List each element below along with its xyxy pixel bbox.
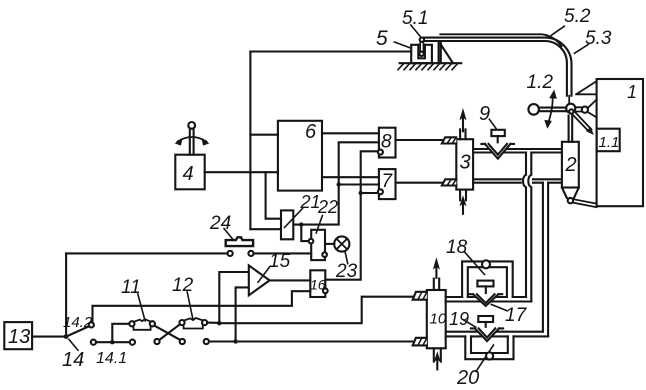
cylinder 2 piston rod to pivot — [569, 116, 573, 142]
open contact under 12 — [180, 339, 185, 344]
svg-text:9: 9 — [479, 103, 490, 125]
valve 10 upper port trapezoid — [413, 292, 427, 300]
wire branch down into relay 21 upper-left — [266, 172, 281, 219]
valve 10 bottom stubs and arrow — [434, 348, 441, 369]
junction dot on lower wire — [233, 339, 237, 343]
valve 3 — [456, 139, 473, 189]
label 10 — [430, 311, 447, 328]
wire 24 right to relay 22 — [254, 252, 312, 254]
pointer 24 — [224, 229, 234, 241]
box 4 — [175, 155, 204, 190]
switch 12 bracket — [184, 326, 203, 329]
label 5.1 — [402, 8, 428, 29]
svg-text:1: 1 — [627, 82, 637, 102]
svg-text:14.1: 14.1 — [96, 350, 127, 367]
contact 14.1 — [91, 340, 96, 345]
label 5.3 — [585, 28, 612, 49]
pipe upper 3 to cylinder 2 — [473, 149, 562, 153]
open contact end — [130, 340, 135, 345]
frame box 1 — [597, 79, 643, 206]
wire box6 to box8 — [322, 132, 379, 134]
pointer 18 — [464, 252, 484, 275]
junction dot net A lower — [299, 222, 303, 226]
svg-text:23: 23 — [335, 261, 358, 282]
label 14 — [62, 349, 84, 371]
switch 12 contacts — [179, 320, 207, 325]
label 15 — [269, 251, 291, 272]
svg-text:5.3: 5.3 — [585, 28, 612, 49]
actuating link with arrow into 1.1 — [573, 112, 594, 135]
wire branch into box 6 left — [250, 134, 278, 136]
switch 12 bridge — [184, 318, 202, 320]
svg-text:8: 8 — [381, 132, 392, 153]
wire switch 12 to riser — [207, 322, 219, 324]
svg-text:12: 12 — [172, 275, 194, 296]
svg-text:20: 20 — [456, 367, 479, 389]
wire from 14.2 to box 16 lower input — [93, 291, 311, 322]
label 16 — [310, 277, 326, 293]
label 22 — [317, 197, 338, 217]
restrictor 17 inside loop — [469, 281, 502, 306]
svg-text:5: 5 — [376, 27, 388, 50]
wire up to amplifier 15 lower input — [236, 287, 249, 341]
bracket for cable sheath on frame 1 — [576, 81, 597, 94]
pointer 9 — [489, 119, 497, 130]
main pivot joint of handle 1.2 — [566, 104, 575, 114]
block of mechanism 5 — [411, 45, 432, 63]
open contact under 11 — [154, 339, 159, 344]
wire top horizontal from node to lever mechanism 5 — [250, 50, 411, 52]
svg-text:5.1: 5.1 — [402, 8, 428, 29]
loop ring 19/20 — [465, 336, 513, 359]
loop ring 17/18 — [462, 261, 513, 297]
label 3 — [460, 152, 471, 174]
switch 11 contacts — [129, 321, 155, 326]
wire 24 left to bus — [66, 252, 227, 254]
pointer 12 — [187, 292, 193, 320]
label 18 — [446, 237, 468, 258]
svg-text:17: 17 — [505, 305, 528, 326]
box 1.1 — [597, 129, 620, 152]
nozzle circle on box 8 — [378, 150, 383, 155]
junction dot at switch 12 output — [217, 321, 221, 325]
pipe branch set1 down (with jump over lower pipe) — [523, 153, 531, 302]
switch 24 contacts — [228, 251, 254, 256]
valve 3 upper port trapezoid — [442, 137, 456, 143]
label 8 — [381, 132, 392, 153]
pointer 11 — [138, 294, 145, 321]
circle on relay 22 bottom right — [322, 252, 327, 257]
label 5.2 — [564, 6, 591, 27]
label 11 — [121, 277, 141, 298]
lever mechanism 5 ground — [398, 63, 461, 69]
wire from 14.1 — [96, 341, 130, 343]
junction dot net B — [359, 191, 363, 195]
valve 10 top stubs and arrow — [433, 257, 440, 290]
pointer 22 — [316, 216, 322, 234]
box 8 — [379, 128, 396, 158]
pointer 17 — [491, 304, 507, 310]
switch 11 bracket — [134, 327, 151, 330]
pipe from valve 10 to loop 17 — [446, 297, 532, 302]
wire box6 to box7 — [322, 176, 379, 178]
crossover diagonal 12 to contact — [159, 324, 180, 340]
label 19 — [449, 309, 469, 329]
wire from sensor 4 to box 6 — [205, 171, 278, 173]
wire up to amplifier 15 upper input — [219, 272, 249, 323]
circle on relay 22 left — [309, 239, 314, 244]
switch 24 plate — [226, 237, 253, 246]
label 23 — [335, 261, 358, 282]
pointer 19 — [463, 320, 475, 327]
wire left vertical bus — [249, 52, 251, 230]
label 20 — [456, 367, 479, 389]
label 6 — [305, 121, 317, 143]
wire to valve 10 lower left port — [209, 340, 413, 342]
crossover diagonal 11 to contact — [154, 326, 180, 340]
svg-text:10: 10 — [430, 311, 447, 328]
svg-text:13: 13 — [8, 326, 30, 348]
cylinder 2 — [562, 142, 579, 188]
label 24 — [209, 213, 231, 234]
label 2 — [565, 154, 577, 176]
label 1 — [627, 82, 637, 102]
label 4 — [183, 163, 194, 185]
pointer 5.1 — [411, 25, 422, 38]
valve 3 bottom stubs and arrow — [459, 190, 466, 214]
pointer 20 — [476, 345, 494, 372]
pipe lower 3 to cylinder 2 — [473, 179, 562, 182]
svg-text:3: 3 — [460, 152, 471, 174]
svg-text:2: 2 — [565, 154, 577, 176]
box 7 — [379, 169, 396, 199]
relay 22 — [311, 230, 325, 260]
wire 15 to 16 — [270, 279, 311, 281]
svg-text:1.2: 1.2 — [527, 72, 554, 93]
label 12 — [172, 275, 194, 296]
box 6 — [278, 121, 322, 191]
label 1.2 — [527, 72, 554, 93]
label 13 — [8, 326, 30, 348]
pointer 23 — [345, 251, 348, 264]
label 9 — [479, 103, 490, 125]
valve circle 18 on loop top — [482, 260, 490, 268]
pipe branch set2 down — [543, 183, 548, 337]
pointer 5.3 — [574, 44, 588, 53]
junction dot net A upper — [337, 182, 341, 186]
label 14.2 — [63, 314, 93, 331]
restrictor 9 on upper pipe — [481, 130, 514, 159]
wire 13 to node 14 — [32, 336, 66, 338]
pipe from valve 10 to loop 19 — [446, 332, 548, 337]
nozzle circle on box 16 — [323, 288, 328, 293]
wire net A (feedback to 8,7 and relay 21) — [294, 142, 379, 241]
label 5 — [376, 27, 388, 50]
svg-text:22: 22 — [317, 197, 338, 217]
valve circle 20 on loop bottom — [486, 352, 493, 359]
svg-text:24: 24 — [209, 213, 231, 234]
amplifier 15 — [249, 265, 270, 295]
wire net B (box16 output to nozzles of 8,7) — [325, 151, 378, 279]
handle with ball — [528, 104, 566, 115]
box 13 — [4, 322, 32, 349]
svg-text:14: 14 — [62, 349, 84, 371]
label 17 — [505, 305, 528, 326]
lever of 4 — [188, 122, 195, 155]
wire from bus into relay 21 lower-left — [250, 228, 281, 230]
svg-text:6: 6 — [305, 121, 317, 143]
pointer 5.2 — [551, 26, 564, 35]
junction dot node 14 — [64, 334, 69, 339]
label 14.1 — [96, 350, 127, 367]
valve 10 lower port trapezoid — [413, 338, 427, 346]
valve 3 lower port trapezoid — [442, 179, 456, 185]
pointer 21 — [285, 209, 303, 228]
nozzle circle on box 7 — [378, 189, 383, 194]
box 16 — [310, 270, 325, 297]
pointer 15 — [258, 267, 270, 282]
contact 14.2 — [89, 322, 94, 327]
svg-text:7: 7 — [382, 171, 394, 192]
valve 3 top stubs and arrow up — [459, 108, 466, 139]
svg-text:5.2: 5.2 — [564, 6, 591, 27]
wire from 14.1 node up to switch 11 — [112, 324, 129, 342]
wire to valve 10 upper left port — [219, 297, 412, 324]
junction dot on 14.1 wire — [110, 340, 114, 344]
label 1.1 — [599, 134, 620, 151]
lamp 23 — [325, 236, 349, 251]
svg-text:4: 4 — [183, 163, 194, 185]
valve 10 — [427, 290, 446, 348]
clevis circle to frame 1 — [575, 100, 597, 118]
svg-text:19: 19 — [449, 309, 469, 329]
contact feeding valve 10 lower line — [204, 339, 209, 344]
label 7 — [382, 171, 394, 192]
wire node up to switch 24 — [65, 253, 67, 336]
svg-text:18: 18 — [446, 237, 468, 258]
svg-text:14.2: 14.2 — [63, 314, 93, 331]
wire box8 to valve 3 — [396, 139, 442, 141]
restrictor 19 above loop — [471, 316, 503, 341]
wire box7 to valve 3 — [396, 182, 442, 184]
link 5.1 — [419, 38, 424, 57]
rotation arrows 1.2 — [544, 90, 557, 129]
rotation arrow over 4 — [175, 137, 210, 146]
svg-text:1.1: 1.1 — [599, 134, 620, 151]
relay 21 — [281, 210, 293, 239]
pointer 5 — [395, 42, 412, 48]
cylinder 2 bottom cone and pivot circle — [562, 188, 597, 208]
cable 5.2/5.3 from lever to pivot — [424, 34, 572, 104]
label 21 — [300, 192, 321, 212]
switch 11 bridge — [134, 319, 150, 321]
pointer 14 — [69, 339, 78, 350]
support bracket of 5 — [439, 43, 453, 63]
switch lever 14 — [66, 326, 89, 336]
